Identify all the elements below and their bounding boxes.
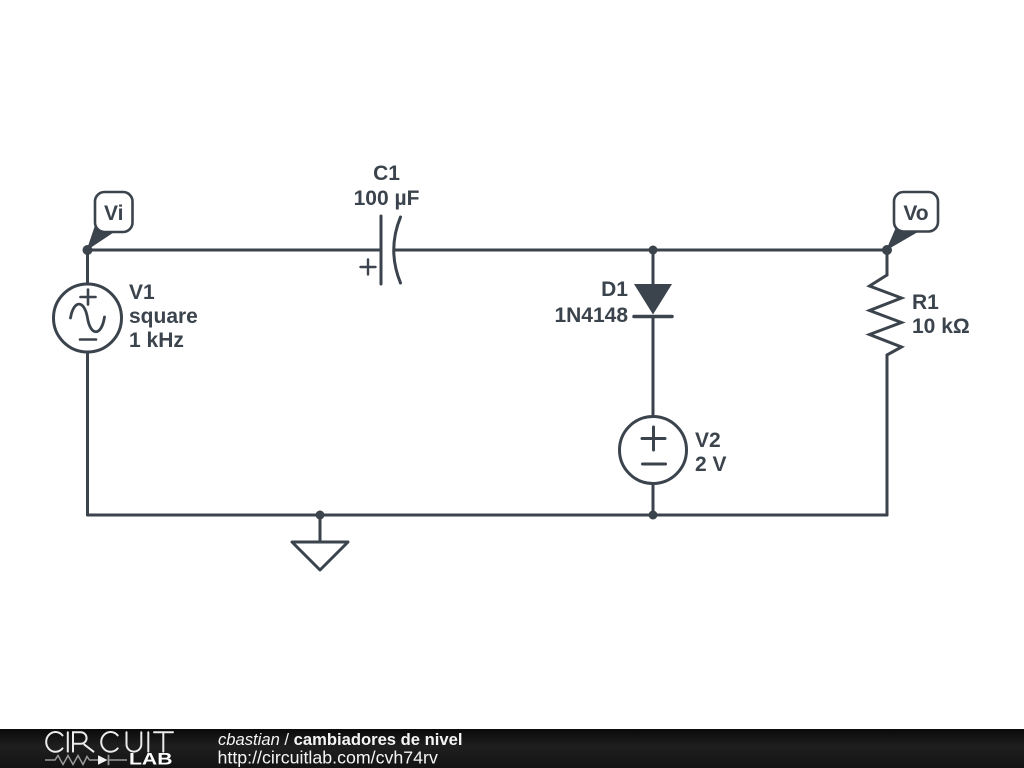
wire top-right horizontal (C1 right plate to Vo node) — [394, 249, 887, 252]
wire ground stub — [319, 515, 322, 542]
junction dot at V2 bottom node — [649, 511, 658, 520]
logo resistor-diode squiggle — [45, 755, 127, 765]
wire bottom rail — [88, 514, 888, 517]
wire right rail lower (R1 bottom to bottom rail) — [886, 355, 889, 515]
wire left rail lower (V1 bottom to bottom rail) — [86, 352, 89, 515]
svg-text:V1: V1 — [129, 281, 155, 304]
node flag Vi — [83, 192, 133, 255]
label C1 100 uF — [354, 162, 420, 210]
wire middle vertical (D1 cathode to V2 top) — [652, 317, 655, 417]
label V2 2 V — [695, 429, 727, 476]
svg-text:1N4148: 1N4148 — [554, 304, 628, 327]
capacitor C1 — [361, 216, 401, 284]
voltage source V1 — [54, 284, 122, 352]
svg-text:LAB: LAB — [129, 751, 173, 768]
node flag Vo — [882, 192, 938, 255]
CircuitLab logo wordmark CIRCUIT — [46, 732, 173, 752]
resistor R1 — [870, 275, 902, 355]
logo diode triangle — [98, 755, 108, 765]
svg-text:V2: V2 — [695, 429, 721, 452]
svg-text:cbastian / cambiadores de nive: cbastian / cambiadores de nivel — [218, 730, 462, 749]
label D1 1N4148 — [554, 278, 628, 327]
voltage source V2 — [620, 417, 687, 484]
wire top-left horizontal (Vi node to C1 left plate) — [88, 249, 382, 252]
svg-text:Vo: Vo — [903, 202, 928, 225]
wire right rail upper (Vo node to R1 top) — [886, 250, 889, 275]
svg-text:10 kΩ: 10 kΩ — [912, 315, 970, 338]
svg-text:http://circuitlab.com/cvh74rv: http://circuitlab.com/cvh74rv — [218, 748, 438, 768]
junction dot at D1 top node — [649, 246, 658, 255]
svg-text:2 V: 2 V — [695, 453, 727, 476]
label R1 10 kOhm — [912, 291, 970, 338]
svg-text:1 kHz: 1 kHz — [129, 329, 184, 352]
wire middle vertical upper (top rail to D1 anode) — [652, 250, 655, 284]
footer bar — [0, 729, 1024, 768]
svg-text:D1: D1 — [601, 278, 628, 301]
wire middle vertical lower (V2 bottom to bottom rail) — [652, 483, 655, 515]
svg-text:Vi: Vi — [104, 202, 123, 225]
svg-text:C1: C1 — [373, 162, 400, 185]
wire left rail upper (Vi node to V1 top) — [86, 250, 89, 284]
svg-text:square: square — [129, 305, 198, 328]
diode D1 — [634, 284, 672, 317]
svg-text:R1: R1 — [912, 291, 939, 314]
junction dot at ground node — [316, 511, 325, 520]
label V1 square 1 kHz — [129, 281, 198, 352]
svg-text:100 µF: 100 µF — [354, 187, 420, 210]
ground symbol — [292, 542, 348, 570]
